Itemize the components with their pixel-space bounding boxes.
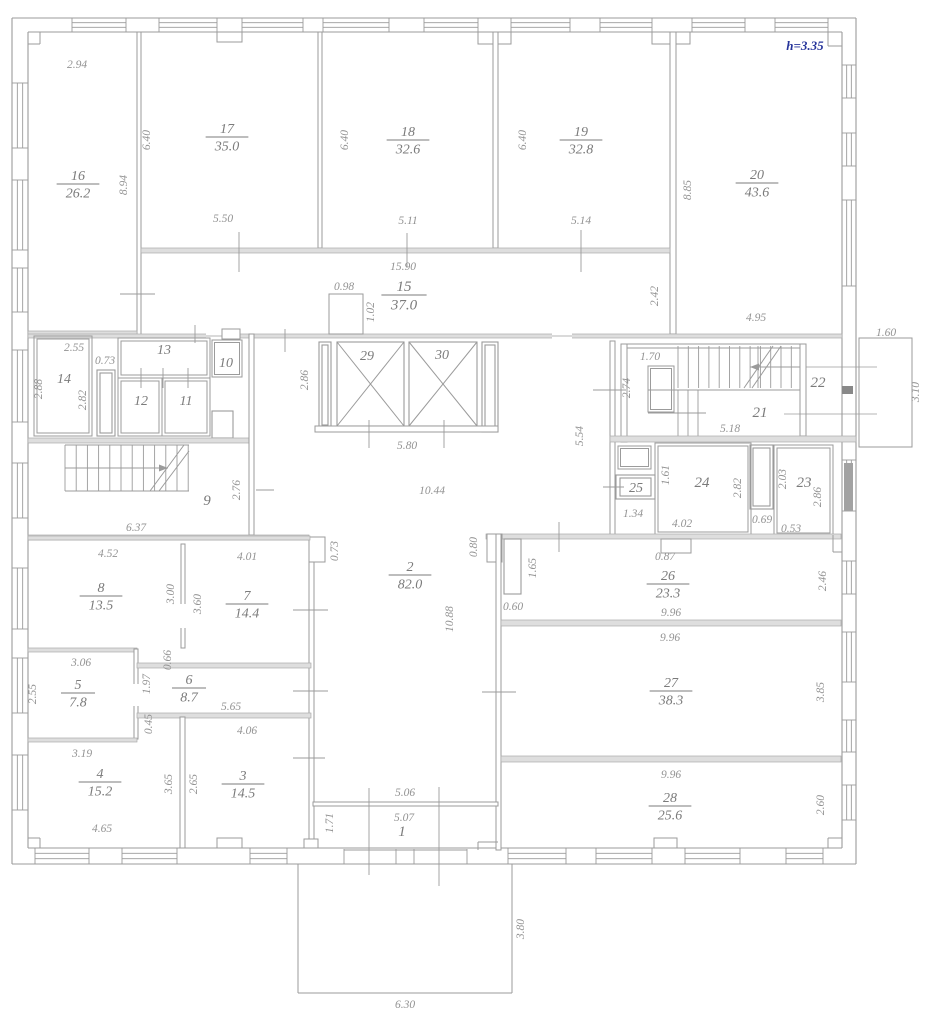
svg-text:13: 13 [157,343,171,358]
wall room9/8 (north of 8) [28,536,310,540]
exterior wall inner boundary [28,32,842,848]
svg-text:23: 23 [797,475,812,491]
svg-text:16: 16 [71,169,85,184]
wall room17/18 [318,32,322,248]
room 24 walls [655,443,751,535]
svg-text:1.02: 1.02 [365,302,377,322]
svg-text:9.96: 9.96 [661,607,681,619]
room 23 label [797,475,812,491]
room 17 label [206,122,249,154]
svg-text:7.8: 7.8 [69,695,87,710]
bottom wall pilaster 1 [217,838,242,848]
svg-text:32.6: 32.6 [395,142,421,157]
stair2 enclosure top wall [621,344,806,348]
svg-text:3.85: 3.85 [815,682,827,703]
svg-text:29: 29 [360,349,374,364]
room 16 label [57,169,100,201]
room 13 walls [118,338,210,378]
room 1 label [398,824,406,840]
svg-text:2.86: 2.86 [812,487,824,507]
room 25 box [616,475,655,499]
room 22 door line upper [806,366,877,368]
room 11 walls [162,378,210,436]
bottom-left corner notch [28,838,40,848]
duct box below room 10 [212,411,233,438]
balcony outline [859,338,912,447]
svg-text:3.06: 3.06 [70,657,91,669]
svg-text:2.88: 2.88 [33,379,45,399]
svg-text:2.60: 2.60 [815,795,827,815]
wall rooms 7-6-3 east (room 2 west) [309,562,314,839]
room 18 label [387,125,430,157]
room 1 north wall [313,802,498,806]
elevator block east shaft [482,342,498,432]
dimension ticks [120,230,758,886]
elevator block west shaft [319,342,331,428]
svg-text:5.11: 5.11 [398,215,417,227]
vent box on corridor wall [222,329,240,339]
porch outline [298,864,512,993]
room 21 label [753,405,768,421]
svg-text:4.52: 4.52 [98,548,118,560]
room 20 label [736,168,779,200]
svg-text:0.98: 0.98 [334,281,354,293]
room 23 walls [774,445,833,536]
wall room16/17 [137,32,141,335]
room 26 label [647,569,690,601]
wall room27/28 [501,756,841,762]
room 22 label [811,375,827,391]
porch door frames [344,849,467,864]
svg-text:6: 6 [186,673,193,688]
top wall windows [72,18,828,32]
svg-text:13.5: 13.5 [89,598,114,613]
svg-text:0.53: 0.53 [781,523,801,535]
svg-text:6.40: 6.40 [339,130,351,150]
svg-text:38.3: 38.3 [658,693,684,708]
box above room 25 [618,446,651,469]
wall room7/6 [137,663,311,668]
dark window right wall [844,463,853,511]
svg-text:1.61: 1.61 [660,465,672,485]
room 9 label [203,493,211,509]
room 27 label [650,676,693,708]
room 29 label [360,349,374,364]
staircase 1 treads and up-arrow [65,445,189,491]
corridor 9 east wall [249,334,254,535]
elevator 29 [337,342,404,426]
bump below wall near room 26 [661,539,691,553]
svg-text:4.65: 4.65 [92,823,112,835]
svg-text:3: 3 [239,769,247,784]
svg-text:27: 27 [664,676,679,691]
right wall windows [842,65,856,820]
svg-text:12: 12 [134,394,148,409]
svg-text:17: 17 [220,122,235,137]
svg-text:8: 8 [98,581,105,596]
svg-text:2.46: 2.46 [817,571,829,591]
column bottom of wall [304,839,318,848]
room 12 walls [118,378,162,436]
room 5 east wall [134,649,138,739]
stair2 block west wall [610,341,615,536]
room 19 label [560,125,603,157]
shaft box above corridor wall [329,294,363,334]
room 11 label [180,394,193,409]
svg-text:0.45: 0.45 [143,714,155,734]
svg-text:0.69: 0.69 [752,514,772,526]
svg-text:11: 11 [180,394,193,409]
svg-text:4.06: 4.06 [237,725,257,737]
svg-text:1.65: 1.65 [527,558,539,578]
wall jog to right wall [833,535,842,552]
svg-text:23.3: 23.3 [656,586,681,601]
svg-text:5.18: 5.18 [720,423,740,435]
svg-text:5.06: 5.06 [395,787,415,799]
svg-text:7: 7 [244,589,252,604]
svg-text:8.7: 8.7 [180,690,199,705]
room 2 label [389,560,432,592]
wall below rooms 14-11 [28,438,254,443]
svg-text:15.90: 15.90 [390,261,416,273]
top-right corner notch [828,32,842,46]
svg-text:5.65: 5.65 [221,701,241,713]
svg-text:26: 26 [661,569,675,584]
svg-text:1.70: 1.70 [640,351,660,363]
svg-text:1.34: 1.34 [623,508,643,520]
svg-text:20: 20 [750,168,764,183]
room 25 label [629,481,643,496]
core block south wall / room 26 north wall [486,534,841,539]
svg-text:21: 21 [753,405,768,421]
svg-text:8.85: 8.85 [682,180,694,200]
wall south of room 9 [28,535,309,540]
svg-text:25: 25 [629,481,643,496]
top wall pilaster 1 [217,32,242,42]
room 5 label [61,678,95,710]
stair2 landing box [648,366,674,412]
svg-text:0.87: 0.87 [655,551,676,563]
staircase 2 treads and arrow [648,346,806,436]
exterior wall outer boundary [12,18,856,864]
room 12 label [134,394,148,409]
svg-text:2.55: 2.55 [27,684,39,704]
elevator 30 [409,342,477,426]
duct stub room 26 [504,539,521,594]
svg-text:2.65: 2.65 [188,774,200,794]
svg-text:0.73: 0.73 [95,355,115,367]
room 14 label [57,372,71,387]
svg-text:3.60: 3.60 [192,594,204,615]
svg-text:4: 4 [97,767,104,782]
svg-text:5.14: 5.14 [571,215,591,227]
room 6 label [172,673,206,705]
svg-text:6.30: 6.30 [395,999,415,1011]
room 3 label [222,769,265,801]
wall room26/27 [501,620,841,626]
svg-text:2.94: 2.94 [67,59,87,71]
svg-text:5: 5 [75,678,82,693]
svg-text:4.95: 4.95 [746,312,766,324]
room 24 label [695,475,711,491]
wall room4/3 [180,717,185,848]
room 8 label [80,581,123,613]
svg-text:25.6: 25.6 [658,808,683,823]
left wall windows [12,83,28,810]
svg-text:2.42: 2.42 [649,286,661,306]
room 7 label [226,589,269,621]
svg-text:19: 19 [574,125,588,140]
svg-text:1.60: 1.60 [876,327,896,339]
svg-text:2.82: 2.82 [77,390,89,410]
corridor wall door gap 2 [552,333,572,339]
svg-text:9: 9 [203,493,211,509]
svg-text:3.80: 3.80 [515,919,527,940]
svg-text:35.0: 35.0 [214,139,240,154]
wall room5/4 [28,738,137,742]
room 30 label [434,348,449,363]
svg-text:10.44: 10.44 [419,485,445,497]
svg-text:4.01: 4.01 [237,551,257,563]
svg-text:82.0: 82.0 [398,577,423,592]
svg-text:15: 15 [397,279,413,295]
svg-text:5.50: 5.50 [213,213,233,225]
wall room6/3 [137,713,311,718]
room 4 label [79,767,122,799]
svg-text:3.19: 3.19 [71,748,92,760]
corridor wall door gap 1 [206,333,228,339]
room 14 walls [34,336,92,436]
svg-text:28: 28 [663,791,677,806]
elevator block south wall [315,426,498,432]
room 5 east wall door gap [133,684,139,706]
bottom wall pilaster 2 [654,838,677,848]
room 28 label [649,791,692,823]
wall room18/19 [493,32,498,248]
svg-text:24: 24 [695,475,711,491]
svg-text:3.65: 3.65 [163,774,175,795]
svg-text:8.94: 8.94 [118,175,130,195]
svg-text:26.2: 26.2 [66,186,91,201]
wall rooms17-19 south (corridor 15 north) [141,248,670,253]
closet walls [97,370,115,436]
wall room19/20 [670,32,676,334]
svg-text:30: 30 [434,348,449,363]
rooms 26-28 west wall [496,534,501,850]
svg-text:10.88: 10.88 [444,606,456,632]
room 8 east wall [181,544,185,648]
ceiling height label [786,38,824,53]
svg-text:32.8: 32.8 [568,142,594,157]
svg-text:37.0: 37.0 [390,297,418,313]
wall room8/5 [28,648,137,652]
room 13 label [157,343,171,358]
svg-text:18: 18 [401,125,415,140]
room 8 east wall door gap [180,604,186,628]
svg-text:0.73: 0.73 [329,541,341,561]
room 10 label [219,356,233,371]
column at corridor corner [309,537,325,562]
svg-text:43.6: 43.6 [745,185,770,200]
svg-text:15.2: 15.2 [88,784,113,799]
svg-text:14.4: 14.4 [235,606,260,621]
svg-text:0.66: 0.66 [162,650,174,670]
svg-text:2.76: 2.76 [231,480,243,500]
top wall pilaster 3 [652,32,690,44]
svg-text:14.5: 14.5 [231,786,256,801]
svg-text:2.55: 2.55 [64,342,84,354]
bottom wall windows [35,848,823,864]
svg-text:2.03: 2.03 [777,469,789,489]
svg-text:9.96: 9.96 [661,769,681,781]
top-left corner notch [28,32,40,44]
svg-text:1.71: 1.71 [324,813,336,833]
svg-text:5.80: 5.80 [397,440,417,452]
room 10 walls [212,340,242,377]
svg-text:10: 10 [219,356,233,371]
door threshold dark block [842,386,853,394]
svg-text:6.37: 6.37 [126,522,147,534]
svg-text:0.80: 0.80 [468,537,480,557]
top wall pilaster 2 [478,32,511,44]
svg-text:14: 14 [57,372,71,387]
svg-text:2: 2 [407,560,414,575]
svg-text:5.07: 5.07 [394,812,415,824]
stair2 east wall [800,344,806,436]
corridor 15 south wall [28,334,842,338]
svg-text:6.40: 6.40 [517,130,529,150]
svg-text:2.74: 2.74 [621,378,633,398]
svg-text:h=3.35: h=3.35 [786,38,824,53]
room 22 door line lower [784,413,877,415]
stair2 enclosure west wall [621,344,627,442]
room 21 south wall [610,436,856,442]
svg-text:6.40: 6.40 [141,130,153,150]
svg-text:1: 1 [398,824,406,840]
room 15 label [381,279,426,313]
svg-text:5.54: 5.54 [574,426,586,446]
column room 26 northwest [487,534,502,562]
svg-text:22: 22 [811,375,827,391]
svg-text:9.96: 9.96 [660,632,680,644]
svg-text:1.97: 1.97 [141,673,153,694]
wall room16 south [28,331,137,336]
svg-text:3.00: 3.00 [165,584,177,605]
svg-text:2.86: 2.86 [299,370,311,390]
svg-text:2.82: 2.82 [732,478,744,498]
svg-text:4.02: 4.02 [672,518,692,530]
shaft between 24 and 23 [750,445,773,509]
svg-text:0.60: 0.60 [503,601,523,613]
room 28 west wall jog [478,842,498,850]
bottom-right corner notch [828,838,842,848]
svg-text:3.10: 3.10 [910,382,922,403]
